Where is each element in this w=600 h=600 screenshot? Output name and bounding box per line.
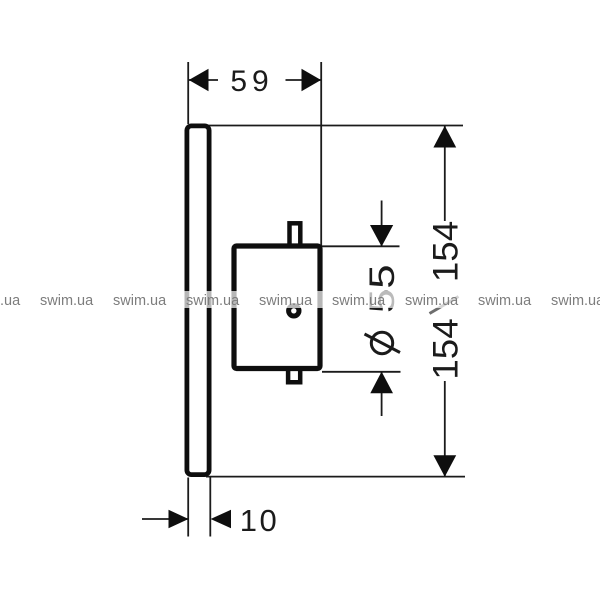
svg-text:swim.ua: swim.ua — [332, 293, 386, 309]
svg-text:swim.ua: swim.ua — [40, 293, 94, 309]
svg-text:swim.ua: swim.ua — [478, 293, 532, 309]
svg-text:swim.ua: swim.ua — [405, 293, 459, 309]
svg-text:swim.ua: swim.ua — [0, 293, 21, 309]
svg-text:swim.ua: swim.ua — [113, 293, 167, 309]
svg-text:59: 59 — [230, 65, 273, 98]
svg-text:10: 10 — [240, 503, 279, 538]
svg-text:swim.ua: swim.ua — [551, 293, 600, 309]
svg-text:154: 154 — [426, 318, 465, 379]
svg-text:swim.ua: swim.ua — [259, 293, 313, 309]
svg-text:154: 154 — [426, 221, 465, 282]
svg-text:swim.ua: swim.ua — [186, 293, 240, 309]
